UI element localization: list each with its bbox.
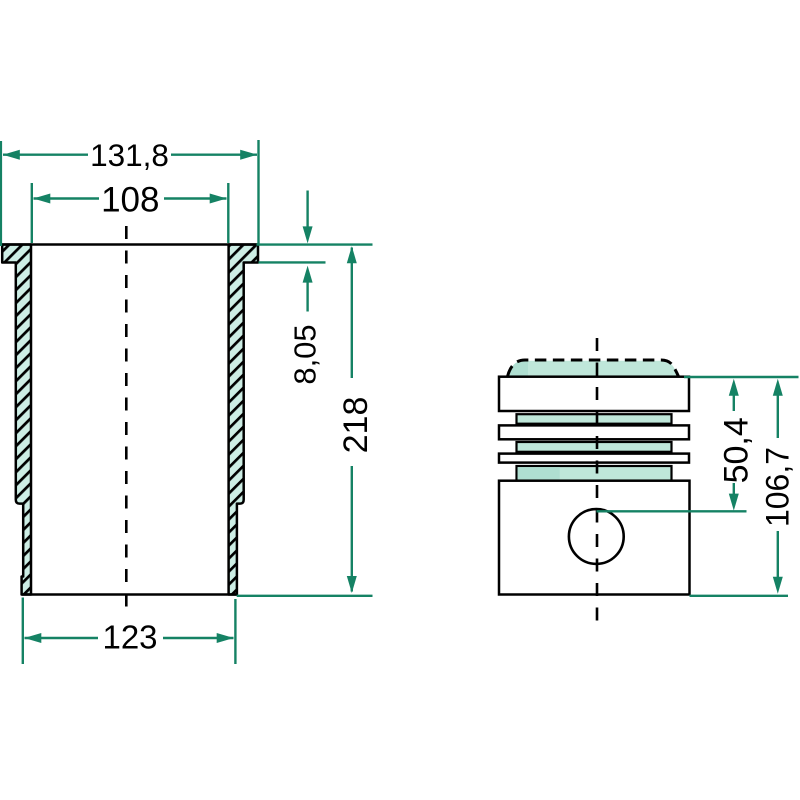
dimension 50,4 lower arrow bbox=[733, 483, 735, 496]
piston dome darker patch bbox=[508, 361, 529, 378]
piston ring groove 1 bbox=[517, 414, 672, 424]
piston centerline bbox=[596, 338, 599, 627]
piston bottom land darker patch bbox=[518, 467, 560, 479]
piston ring band 3 bbox=[499, 454, 689, 463]
pin top reference line bbox=[597, 510, 747, 512]
dimension 123 extension line left bbox=[22, 598, 24, 665]
dimension 123 arrowheads bbox=[24, 633, 41, 643]
svg-text:8,05: 8,05 bbox=[288, 324, 323, 384]
svg-text:123: 123 bbox=[102, 619, 157, 656]
dimension 131,8 extension line right bbox=[257, 140, 259, 245]
liner centerline bbox=[125, 226, 128, 612]
dimension 131,8 arrowheads bbox=[3, 150, 20, 160]
svg-text:106,7: 106,7 bbox=[760, 447, 796, 527]
svg-text:50,4: 50,4 bbox=[718, 417, 756, 483]
dimension 106,7 upper arrow bbox=[773, 379, 783, 396]
dimension 108 line bbox=[34, 197, 100, 199]
cylinder liner left wall section bbox=[2, 245, 31, 595]
svg-text:218: 218 bbox=[337, 397, 375, 454]
dimension 8,05 reference line bottom bbox=[259, 261, 326, 263]
dimension 108 extension line left bbox=[31, 183, 33, 243]
piston skirt bbox=[499, 481, 690, 595]
liner top edge bbox=[2, 243, 258, 246]
piston ring band 2 bbox=[499, 425, 689, 439]
dimension 218 line upper bbox=[351, 248, 353, 379]
dimension 8,05 lower arrow bbox=[303, 266, 313, 283]
svg-text:131,8: 131,8 bbox=[90, 137, 169, 173]
dimension 8,05 upper arrow bbox=[306, 191, 308, 229]
dimension 131,8 extension line left bbox=[0, 141, 2, 246]
dimension 8,05 reference line top bbox=[257, 243, 373, 245]
piston top reference line bbox=[684, 376, 799, 378]
dimension 108 arrowheads bbox=[33, 194, 50, 204]
dimension 108 extension line right bbox=[227, 183, 229, 243]
dimension 123 extension line right bbox=[234, 599, 236, 664]
dimension 218 line lower bbox=[351, 466, 353, 592]
liner bottom edge bbox=[22, 593, 237, 596]
piston dome fill bbox=[508, 361, 679, 378]
dimension 131,8 line bbox=[3, 153, 88, 155]
dimension 50,4 upper arrow bbox=[729, 379, 739, 396]
dimension 106,7 lower arrow bbox=[777, 531, 779, 579]
svg-text:108: 108 bbox=[101, 180, 159, 219]
piston bottom reference line bbox=[690, 595, 789, 597]
cylinder liner right wall section bbox=[229, 245, 258, 595]
dimension 123 line bbox=[25, 637, 99, 639]
piston pin bore bbox=[569, 509, 624, 564]
dimension 218 bottom reference line bbox=[237, 595, 373, 597]
piston bottom land bbox=[517, 466, 672, 481]
piston dome dashed outline bbox=[508, 360, 679, 377]
piston ring groove 2 bbox=[517, 442, 672, 452]
piston crown band bbox=[499, 377, 689, 411]
